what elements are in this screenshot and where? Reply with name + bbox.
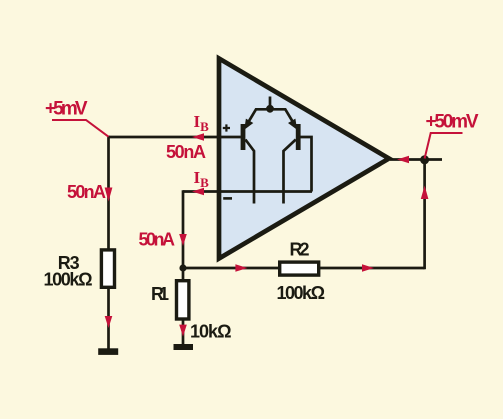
pointer line from +50mV to output node (425, 133, 463, 159)
current arrow IB- (pointing left) (192, 188, 204, 196)
current arrow down into left ground (105, 316, 113, 328)
wire: common emitter stub (269, 97, 272, 109)
current arrow down left wire (105, 188, 113, 202)
current arrow right (R2 to corner) (362, 264, 374, 272)
svg-text:50nA: 50nA (166, 142, 206, 162)
wire: non-inverting input inside op-amp to Q1 base (217, 136, 241, 139)
minus sign (inverting input marker) (223, 197, 232, 200)
transistor Q2 base bar (296, 124, 301, 150)
ground (under R1) (174, 344, 194, 350)
wire: R2 right to feedback corner (320, 267, 425, 270)
wire: inverting input inside op-amp to Q2 base (217, 190, 312, 193)
op-amp U1 triangle (219, 59, 389, 259)
current arrow IB+ (pointing left into node) (192, 133, 204, 141)
wire: left vertical from +5mV node down to ground (107, 136, 110, 349)
ground (under R3) (98, 348, 118, 355)
node: emitter junction dot (266, 105, 274, 113)
svg-text:R2: R2 (290, 239, 310, 259)
transistor Q1 emitter wire (246, 109, 270, 125)
svg-text:100kΩ: 100kΩ (277, 283, 326, 303)
svg-text:100kΩ: 100kΩ (44, 270, 93, 290)
transistor Q2 emitter wire (270, 109, 295, 125)
wire: R1 node down to ground (182, 268, 185, 344)
svg-text:R1: R1 (151, 284, 169, 304)
current arrow left into op-amp output (397, 156, 409, 164)
wire: non-inverting input (node to op-amp) (109, 136, 222, 139)
wire: inverting input horizontal (183, 190, 221, 193)
current arrow right (node to R2) (235, 264, 247, 272)
wire: output horizontal (390, 158, 442, 161)
svg-text:+5mV: +5mV (45, 99, 88, 120)
resistor R2 (280, 262, 319, 275)
plus sign (non-inverting input marker) (223, 124, 230, 131)
current arrow down inverting vertical (179, 234, 187, 246)
resistor R3 (101, 250, 114, 287)
transistor Q2 emitter arrow (PNP) (288, 119, 297, 130)
wire: feedback vertical up to output node (423, 160, 426, 269)
pointer line from +5mV to node (52, 120, 109, 137)
transistor Q1 emitter arrow (PNP) (244, 119, 253, 130)
node A: inverting summing node dot (179, 264, 186, 271)
svg-text:50nA: 50nA (67, 182, 106, 202)
wire: Q2 base to inverting input (300, 137, 311, 192)
current arrow up feedback vertical (421, 186, 429, 200)
svg-text:10kΩ: 10kΩ (190, 321, 232, 341)
resistor R1 (177, 281, 189, 319)
transistor Q1 base bar (241, 124, 246, 150)
node B: output node dot (420, 155, 429, 164)
svg-text:50nA: 50nA (139, 230, 176, 250)
current arrow down into R1 ground (179, 325, 187, 337)
transistor Q1 collector wire (245, 140, 254, 204)
wire: inverting input vertical down to node (182, 190, 185, 268)
wire: node to R2 left (183, 267, 278, 270)
svg-text:+50mV: +50mV (426, 112, 479, 133)
transistor Q2 collector wire (284, 140, 296, 204)
